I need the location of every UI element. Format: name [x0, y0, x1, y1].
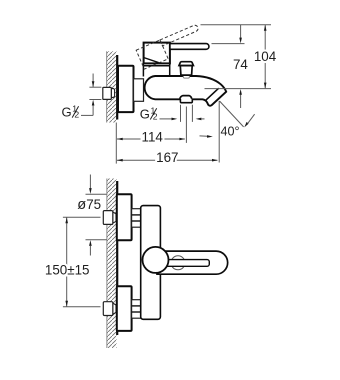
dashed handle raised position — [136, 24, 204, 69]
wall section (side view) hatched strip — [107, 51, 118, 122]
handle pivot circle (plan view) — [143, 247, 169, 273]
diverter knob base nub — [183, 75, 189, 78]
dimension 114 — [117, 130, 185, 145]
dimension 167 — [117, 150, 218, 165]
connector stub escutcheon-to-body — [134, 79, 144, 102]
mixer body with spout (side view) — [145, 76, 227, 106]
40 degree angle annotation — [200, 101, 255, 163]
cartridge neck under handle — [143, 63, 170, 76]
svg-text:114: 114 — [142, 130, 164, 145]
lever handle (solid horizontal) — [170, 44, 209, 50]
wall face extension line — [115, 123, 117, 164]
G1/2 small dimension (left inlet) — [62, 74, 102, 120]
upper supply nut (plan view) — [103, 211, 116, 225]
lower threaded stub — [132, 300, 141, 319]
hand-shower outlet bump under body — [180, 96, 192, 103]
svg-text:G: G — [140, 107, 150, 122]
diverter knob cap — [179, 62, 193, 66]
outlet extension lines — [181, 105, 193, 143]
handle cap housing (solid position) — [144, 43, 170, 64]
dimension 150 plus-minus 15 — [45, 217, 101, 306]
extension line from raised handle tip — [201, 24, 272, 26]
svg-text:150±15: 150±15 — [45, 262, 90, 277]
mixer body bar (plan view) — [141, 206, 161, 320]
lever slot — [163, 260, 210, 267]
svg-text:167: 167 — [156, 150, 178, 165]
extension line from lever top — [212, 43, 245, 45]
svg-text:G: G — [62, 105, 72, 120]
wall escutcheon (side view) — [118, 66, 134, 112]
G1/2 label bottom outlet — [140, 106, 205, 122]
spout outlet inner cut line — [206, 89, 218, 100]
svg-text:2: 2 — [74, 110, 79, 120]
lower escutcheon (plan view) — [117, 286, 132, 331]
diverter knob cup — [180, 66, 192, 76]
dimension 104 — [254, 25, 277, 89]
upper escutcheon (plan view) — [117, 194, 132, 240]
handle cap slant edge — [144, 58, 161, 64]
svg-text:74: 74 — [233, 57, 248, 72]
lever screw circle (thin) — [171, 256, 185, 270]
svg-text:2: 2 — [153, 112, 158, 122]
G1/2 inlet nut (side view) — [103, 87, 115, 99]
dimension dia 75 — [77, 175, 106, 256]
wall section (plan view) hatched strip — [107, 179, 117, 349]
svg-text:104: 104 — [254, 49, 277, 64]
extension line from spout bottom — [205, 88, 272, 90]
svg-text:40°: 40° — [221, 125, 240, 139]
lower supply nut (plan view) — [103, 302, 116, 316]
lever (plan view, stadium) — [157, 251, 228, 274]
dimension 74 — [233, 25, 248, 108]
svg-text:ø75: ø75 — [77, 197, 101, 213]
upper threaded stub — [132, 209, 141, 228]
